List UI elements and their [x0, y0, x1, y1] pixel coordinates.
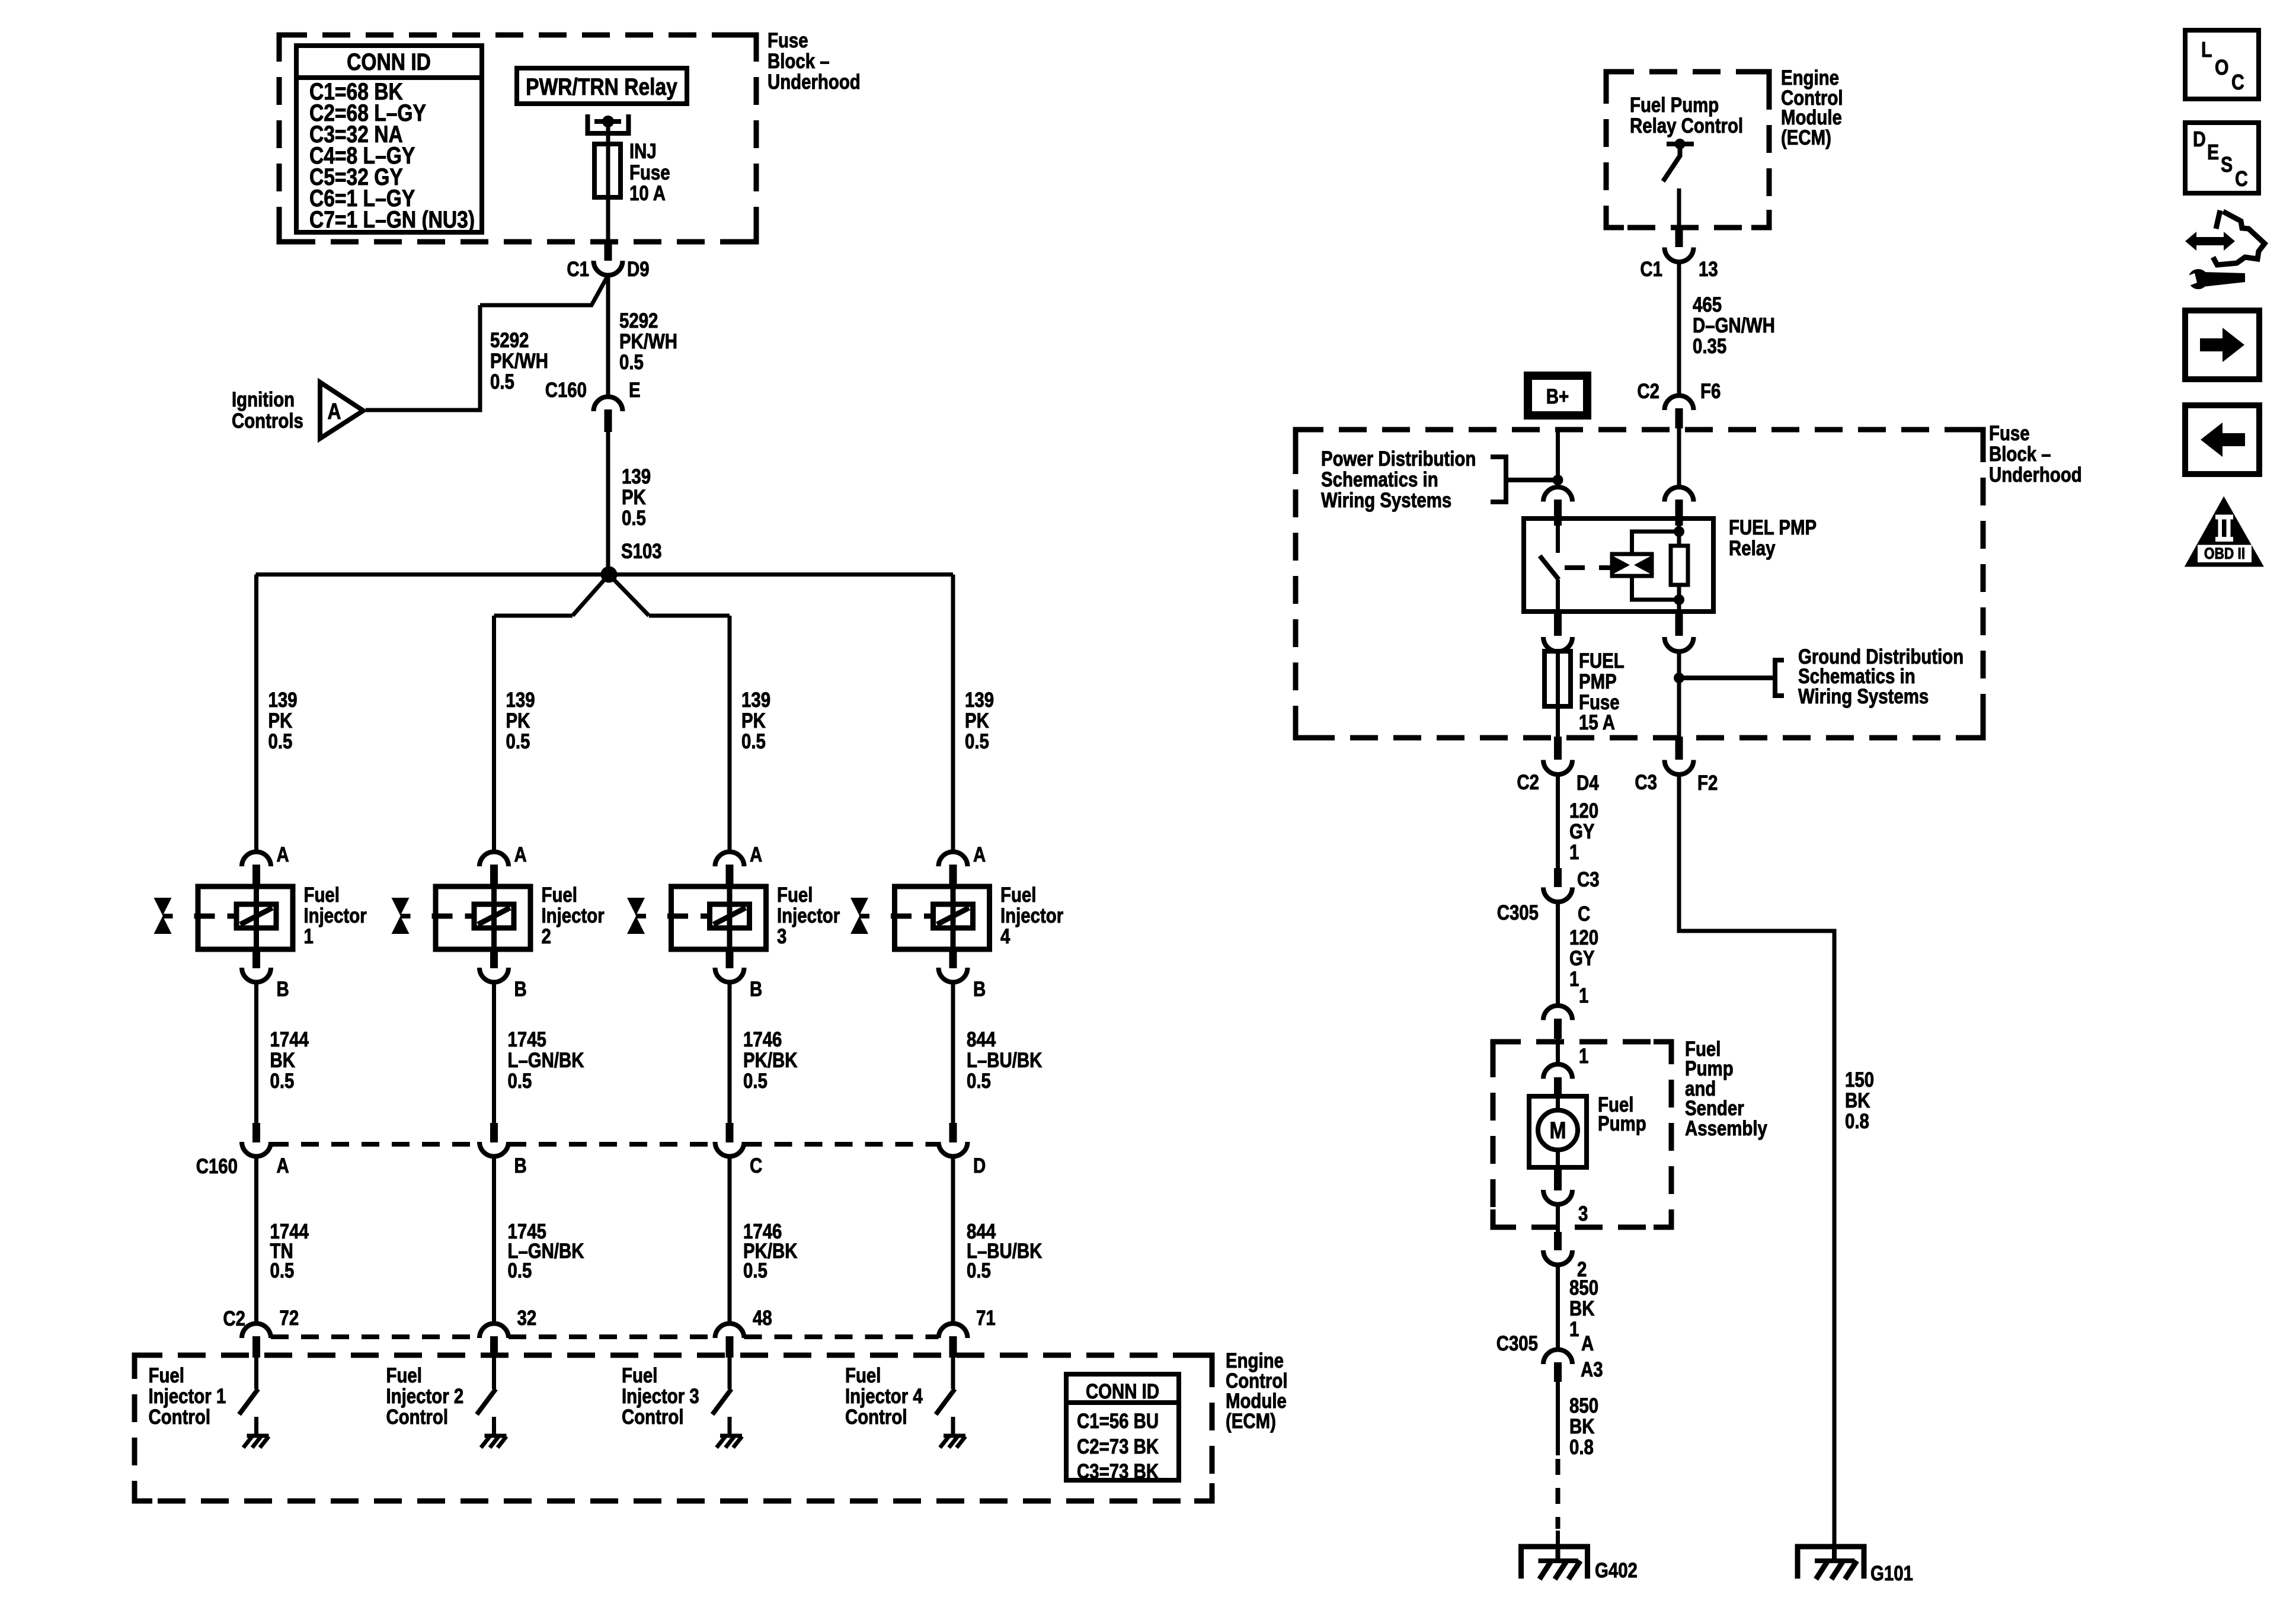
fuel injector 2 box: [436, 886, 530, 949]
wire C160 to C2 injector 2: [492, 1157, 496, 1324]
svg-text:0.5: 0.5: [490, 370, 514, 393]
svg-text:C2=73 BK: C2=73 BK: [1077, 1435, 1159, 1458]
svg-text:Fuse: Fuse: [1989, 422, 2030, 445]
svg-text:1: 1: [304, 925, 314, 948]
svg-text:5292: 5292: [490, 329, 529, 352]
svg-text:139: 139: [741, 689, 770, 712]
svg-text:D–GN/WH: D–GN/WH: [1693, 314, 1775, 337]
svg-text:B: B: [750, 978, 762, 1001]
fuse INJ 10 A: [594, 144, 621, 197]
connector pin A injector 1: [242, 852, 271, 867]
svg-text:3: 3: [1578, 1202, 1588, 1225]
svg-text:850: 850: [1569, 1394, 1598, 1417]
svg-text:Injector 2: Injector 2: [386, 1385, 464, 1408]
svg-text:Fuel: Fuel: [845, 1364, 881, 1387]
connector C2 pin 32: [479, 1324, 509, 1339]
svg-text:GY: GY: [1569, 820, 1595, 843]
svg-text:2: 2: [542, 925, 551, 948]
svg-text:Relay: Relay: [1729, 537, 1775, 560]
svg-text:C2: C2: [1637, 380, 1659, 403]
svg-text:Fuel: Fuel: [149, 1364, 184, 1387]
svg-text:1: 1: [1569, 968, 1579, 991]
svg-text:FUEL: FUEL: [1579, 649, 1625, 673]
engine control module dashed box: [135, 1355, 1212, 1501]
svg-text:Control: Control: [149, 1406, 210, 1429]
svg-text:F2: F2: [1697, 772, 1718, 795]
connector C2 pin 72: [242, 1324, 271, 1339]
svg-text:Assembly: Assembly: [1685, 1117, 1767, 1140]
svg-text:CONN ID: CONN ID: [347, 49, 431, 75]
connector C160 pin A: [252, 1123, 260, 1142]
svg-text:5292: 5292: [619, 309, 658, 332]
fuel injector 4 actuator dashes: [891, 914, 933, 919]
svg-text:Fuse: Fuse: [629, 161, 670, 184]
fuel injector 3 valve symbol: [627, 898, 645, 916]
connector pin B injector 1: [252, 949, 260, 968]
svg-text:PK: PK: [268, 709, 293, 732]
svg-text:0.5: 0.5: [268, 730, 293, 753]
ground distribution reference: [1677, 652, 1681, 737]
svg-text:Pump: Pump: [1598, 1112, 1646, 1135]
wire injector 2 to C160: [492, 982, 496, 1123]
svg-text:Wiring Systems: Wiring Systems: [1798, 685, 1929, 708]
svg-text:0.5: 0.5: [967, 1259, 991, 1282]
fuel injector 2 actuator dashes: [432, 914, 474, 919]
fuel injector 2 driver switch: [492, 1358, 496, 1389]
svg-text:C: C: [2231, 71, 2244, 95]
svg-text:0.5: 0.5: [622, 507, 646, 530]
connector row C2 dashed line: [271, 1334, 479, 1339]
svg-text:Power Distribution: Power Distribution: [1321, 447, 1476, 470]
svg-text:465: 465: [1693, 293, 1722, 316]
svg-text:71: 71: [976, 1307, 996, 1330]
svg-text:Injector: Injector: [304, 904, 367, 927]
svg-text:Fuel: Fuel: [542, 884, 577, 907]
svg-text:Relay Control: Relay Control: [1630, 114, 1743, 137]
svg-text:A: A: [1581, 1332, 1594, 1355]
svg-text:0.8: 0.8: [1845, 1110, 1869, 1133]
relay pin 86 connector: [1665, 487, 1694, 502]
fuel injector 1 driver switch: [254, 1358, 258, 1389]
svg-text:0.5: 0.5: [965, 730, 989, 753]
svg-text:0.5: 0.5: [743, 1259, 768, 1282]
svg-text:13: 13: [1699, 258, 1718, 281]
relay coil wiring: [1632, 532, 1680, 554]
svg-text:C3: C3: [1577, 868, 1600, 891]
svg-text:1: 1: [1569, 841, 1579, 864]
svg-text:120: 120: [1569, 926, 1598, 949]
back arrow icon: [2185, 405, 2259, 474]
svg-text:PK/WH: PK/WH: [490, 350, 548, 373]
connector C1/D9: [605, 241, 612, 261]
svg-text:A3: A3: [1581, 1358, 1603, 1381]
splice S103: [601, 566, 618, 583]
svg-text:0.8: 0.8: [1569, 1436, 1594, 1459]
fuse FUEL PMP 15 A: [1556, 652, 1560, 737]
svg-text:B: B: [277, 978, 289, 1001]
fuse block - underhood dashed box: [279, 35, 756, 242]
wire C160 to C2 injector 1: [254, 1157, 258, 1324]
svg-text:L: L: [2201, 39, 2212, 62]
wire driver to C1: [1677, 188, 1681, 243]
fuel injector 4 coil: [933, 904, 973, 928]
svg-text:Fuel: Fuel: [304, 884, 340, 907]
fuel injector 1 actuator dashes: [194, 914, 236, 919]
svg-text:C: C: [1578, 902, 1590, 926]
fuel injector 4 box: [895, 886, 990, 949]
svg-text:INJ: INJ: [629, 140, 657, 163]
svg-text:1: 1: [1569, 1318, 1579, 1341]
svg-text:FUEL PMP: FUEL PMP: [1729, 516, 1817, 539]
svg-text:D: D: [2193, 128, 2206, 152]
fuel pump pin 1 connector: [1556, 1039, 1560, 1064]
svg-text:Injector 4: Injector 4: [845, 1385, 923, 1408]
svg-text:B: B: [514, 978, 527, 1001]
wire D4 to C305: [1556, 774, 1560, 869]
svg-text:0.5: 0.5: [508, 1259, 532, 1282]
svg-text:844: 844: [967, 1028, 996, 1051]
svg-text:PK: PK: [965, 709, 989, 732]
svg-text:Fuel: Fuel: [1000, 884, 1036, 907]
fuel injector 3 box: [671, 886, 766, 949]
fuel injector 1 box: [198, 886, 293, 949]
wire bus to fuel injector 3: [728, 616, 732, 853]
wire relay contact to INJ fuse: [606, 121, 610, 242]
connector C2/F6: [1665, 396, 1694, 411]
svg-text:B: B: [973, 978, 986, 1001]
svg-text:A: A: [277, 1154, 289, 1177]
svg-text:4: 4: [1000, 925, 1010, 948]
svg-text:Fuse: Fuse: [768, 29, 808, 52]
svg-text:G101: G101: [1870, 1562, 1913, 1585]
wire C1 to C160: [606, 276, 610, 398]
svg-text:PK/BK: PK/BK: [743, 1049, 798, 1072]
next arrow icon: [2185, 311, 2259, 379]
connector C3/F2: [1675, 737, 1683, 760]
svg-text:(ECM): (ECM): [1781, 126, 1831, 149]
fuel pump motor: [1529, 1096, 1587, 1167]
driver 2 ground: [485, 1434, 507, 1438]
connector C160/E: [594, 397, 623, 412]
connector pin A injector 4: [939, 852, 968, 867]
svg-text:1: 1: [1579, 1045, 1588, 1068]
svg-text:B: B: [514, 1154, 527, 1177]
svg-text:PWR/TRN Relay: PWR/TRN Relay: [526, 73, 677, 100]
connector C160 pin D: [949, 1123, 957, 1142]
svg-text:72: 72: [280, 1307, 299, 1330]
svg-text:C2: C2: [1517, 771, 1539, 794]
svg-text:BK: BK: [1845, 1089, 1870, 1112]
fuel pump pin 3 connector: [1554, 1167, 1562, 1190]
svg-text:Underhood: Underhood: [1989, 463, 2082, 486]
assembly inline connector: [1543, 1006, 1572, 1020]
svg-text:Injector: Injector: [777, 904, 840, 927]
svg-text:Control: Control: [386, 1406, 448, 1429]
svg-text:C: C: [750, 1154, 762, 1177]
svg-text:C305: C305: [1497, 901, 1539, 924]
svg-text:C160: C160: [545, 379, 587, 402]
wire branch to ignition controls: [480, 276, 608, 306]
fuel injector 2 coil: [474, 904, 514, 928]
svg-text:Control: Control: [845, 1406, 907, 1429]
relay pin 85 connector: [1675, 612, 1683, 636]
svg-text:BK: BK: [1569, 1415, 1595, 1438]
svg-text:C160: C160: [196, 1155, 238, 1178]
fuse block - underhood dashed box (right): [1296, 430, 1983, 738]
svg-text:A: A: [277, 843, 289, 866]
wire to ground G402: [1556, 1382, 1560, 1455]
svg-text:Block –: Block –: [768, 50, 830, 73]
svg-text:150: 150: [1845, 1068, 1874, 1092]
svg-text:D: D: [973, 1154, 986, 1177]
wire injector 4 to C160: [951, 982, 955, 1123]
svg-text:L–BU/BK: L–BU/BK: [967, 1049, 1043, 1072]
svg-text:10 A: 10 A: [629, 182, 666, 205]
svg-text:M: M: [1550, 1117, 1566, 1143]
connector C2/D4: [1554, 737, 1562, 760]
PWR/TRN relay contact: [588, 114, 629, 133]
fuel pump relay control driver switch: [1667, 142, 1694, 146]
svg-text:PMP: PMP: [1579, 670, 1617, 693]
svg-text:C2: C2: [223, 1307, 245, 1330]
svg-text:E: E: [629, 379, 641, 402]
wire C1 to C2/F6: [1677, 262, 1681, 396]
connector pin B injector 2: [490, 949, 498, 968]
fuel injector 2 valve symbol: [392, 898, 410, 916]
relay coil: [1612, 554, 1652, 576]
connector pin A injector 3: [715, 852, 744, 867]
svg-text:O: O: [2215, 56, 2229, 80]
svg-text:BK: BK: [270, 1049, 296, 1072]
svg-text:A: A: [973, 843, 986, 866]
svg-text:L–GN/BK: L–GN/BK: [508, 1049, 585, 1072]
wire bus to fuel injector 4: [951, 575, 955, 853]
svg-text:139: 139: [622, 465, 651, 488]
assembly bottom connector: [1554, 1232, 1562, 1250]
svg-text:3: 3: [777, 925, 786, 948]
svg-text:Controls: Controls: [232, 409, 303, 433]
svg-text:0.5: 0.5: [270, 1070, 295, 1093]
svg-text:Control: Control: [622, 1406, 683, 1429]
wire C160 to C2 injector 3: [728, 1157, 732, 1324]
connector C2 pin 48: [715, 1324, 744, 1339]
svg-text:Injector 1: Injector 1: [149, 1385, 226, 1408]
svg-text:0.5: 0.5: [967, 1070, 991, 1093]
ground G101: [1798, 1547, 1864, 1579]
svg-text:15 A: 15 A: [1579, 711, 1615, 734]
svg-text:Schematics in: Schematics in: [1321, 468, 1438, 491]
svg-text:PK/WH: PK/WH: [619, 330, 677, 353]
svg-text:1: 1: [1579, 984, 1588, 1007]
svg-text:1745: 1745: [508, 1028, 546, 1051]
svg-text:S103: S103: [621, 540, 662, 563]
driver 4 ground: [944, 1434, 965, 1438]
B+ power symbol: [1528, 376, 1587, 415]
svg-text:D4: D4: [1576, 772, 1599, 795]
svg-text:C1: C1: [567, 258, 589, 281]
svg-text:0.5: 0.5: [508, 1070, 532, 1093]
DESC icon: [2185, 123, 2259, 193]
connector C160 pin B: [490, 1123, 498, 1142]
svg-text:A: A: [327, 399, 341, 424]
driver 3 ground: [720, 1434, 742, 1438]
wire C160 to C2 injector 4: [951, 1157, 955, 1324]
svg-text:E: E: [2207, 141, 2219, 165]
svg-text:120: 120: [1569, 799, 1598, 822]
svg-text:Fuel: Fuel: [622, 1364, 657, 1387]
wire to C305 pin A: [1556, 1265, 1560, 1350]
svg-text:CONN ID: CONN ID: [1086, 1380, 1159, 1403]
relay pin 87 connector: [1554, 612, 1562, 636]
svg-text:Block –: Block –: [1989, 443, 2051, 466]
svg-text:C3=73 BK: C3=73 BK: [1077, 1460, 1159, 1483]
OBD II icon: [2185, 497, 2264, 567]
wire injector 1 to C160: [254, 982, 258, 1123]
svg-text:Ignition: Ignition: [232, 388, 295, 411]
svg-text:1744: 1744: [270, 1028, 309, 1051]
svg-text:F6: F6: [1700, 380, 1721, 403]
svg-text:C1: C1: [1640, 258, 1662, 281]
ignition controls triangle A: [320, 382, 363, 438]
svg-text:Fuel: Fuel: [777, 884, 813, 907]
driver 1 ground: [247, 1434, 269, 1438]
FUEL PMP relay box: [1524, 518, 1713, 612]
svg-text:Wiring Systems: Wiring Systems: [1321, 489, 1451, 512]
fuel injector 1 valve symbol: [154, 898, 172, 916]
ground G402: [1521, 1547, 1588, 1579]
fuel injector 1 coil: [236, 904, 276, 928]
wire bus to fuel injector 1: [254, 575, 258, 853]
svg-text:139: 139: [506, 689, 535, 712]
svg-text:C305: C305: [1496, 1332, 1538, 1355]
svg-text:BK: BK: [1569, 1297, 1595, 1320]
shortcut icon: [2185, 232, 2235, 251]
LOC icon: [2185, 30, 2259, 99]
wire B+ into fuse block: [1556, 431, 1560, 487]
connector pin B injector 4: [949, 949, 957, 968]
svg-text:Underhood: Underhood: [768, 71, 861, 94]
svg-text:48: 48: [753, 1307, 772, 1330]
svg-text:GY: GY: [1569, 947, 1595, 970]
svg-text:C3: C3: [1635, 771, 1657, 794]
svg-text:32: 32: [517, 1307, 537, 1330]
wire F2 to ground G101: [1679, 774, 1834, 1548]
svg-text:PK: PK: [622, 486, 646, 509]
fuel injector 3 actuator dashes: [667, 914, 709, 919]
wire F6 into fuse block: [1677, 428, 1681, 487]
PWR/TRN Relay box: [517, 68, 687, 104]
wire injector 3 to C160: [728, 982, 732, 1123]
svg-text:0.5: 0.5: [619, 351, 644, 374]
fuel injector 3 driver switch: [728, 1358, 732, 1389]
connector C1/13: [1675, 228, 1683, 247]
relay pin 30 connector: [1543, 487, 1572, 502]
connector C2 pin 71: [939, 1324, 968, 1339]
svg-text:1746: 1746: [743, 1028, 782, 1051]
wire C160 to S103: [606, 432, 610, 575]
wire bus to fuel injector 2: [492, 616, 496, 853]
fuel injector 3 coil: [710, 904, 750, 928]
fuel injector 4 driver switch: [951, 1358, 955, 1389]
svg-text:0.5: 0.5: [506, 730, 530, 753]
CONN ID table (fuse block): [296, 46, 482, 232]
svg-text:Injector 3: Injector 3: [622, 1385, 699, 1408]
fuel pump and sender assembly dashed box: [1493, 1042, 1671, 1227]
svg-text:C: C: [2235, 168, 2248, 191]
connector pin A injector 2: [479, 852, 509, 867]
svg-text:C1=56 BU: C1=56 BU: [1077, 1410, 1159, 1433]
relay switch: [1556, 526, 1560, 553]
svg-text:PK: PK: [741, 709, 766, 732]
injector feed bus from S103: [256, 572, 954, 577]
svg-text:G402: G402: [1595, 1559, 1638, 1582]
svg-text:S: S: [2221, 153, 2233, 177]
svg-text:0.5: 0.5: [270, 1259, 295, 1282]
svg-text:Injector: Injector: [1000, 904, 1064, 927]
connector row C160 dashed line: [271, 1142, 479, 1147]
svg-text:PK: PK: [506, 709, 530, 732]
connector C160 pin C: [726, 1123, 734, 1142]
svg-text:A: A: [750, 843, 762, 866]
ECM dashed box (fuel pump relay control): [1606, 72, 1769, 228]
svg-text:0.5: 0.5: [741, 730, 766, 753]
svg-text:OBD II: OBD II: [2204, 545, 2245, 562]
svg-text:A: A: [514, 843, 527, 866]
svg-text:0.35: 0.35: [1693, 335, 1726, 358]
connector C3/C305 pin C: [1554, 868, 1562, 887]
svg-text:D9: D9: [627, 258, 650, 281]
fuel injector 4 valve symbol: [850, 898, 868, 916]
svg-text:Fuel Pump: Fuel Pump: [1630, 94, 1719, 117]
svg-text:0.5: 0.5: [743, 1070, 768, 1093]
CONN ID table (ECM): [1066, 1374, 1179, 1480]
svg-text:139: 139: [965, 689, 994, 712]
svg-text:850: 850: [1569, 1276, 1598, 1299]
svg-text:(ECM): (ECM): [1226, 1410, 1276, 1433]
svg-text:B+: B+: [1546, 385, 1569, 408]
svg-text:139: 139: [268, 689, 298, 712]
svg-text:Fuel: Fuel: [386, 1364, 422, 1387]
wire C305 to fuel pump assembly: [1556, 902, 1560, 1006]
svg-text:C7=1 L–GN (NU3): C7=1 L–GN (NU3): [309, 206, 475, 232]
connector pin B injector 3: [726, 949, 734, 968]
relay resistor: [1677, 526, 1681, 546]
svg-text:Injector: Injector: [542, 904, 605, 927]
